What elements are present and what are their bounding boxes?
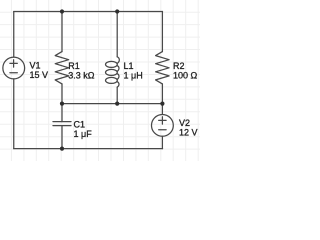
label R2 xyxy=(173,61,198,81)
inductor L1 xyxy=(106,12,120,104)
junction node bottom C1 xyxy=(60,147,64,151)
wire left upper (V1 top lead) xyxy=(13,12,15,58)
svg-text:100 Ω: 100 Ω xyxy=(173,71,198,81)
resistor R2 xyxy=(156,12,170,104)
capacitor C1 xyxy=(53,104,71,149)
junction node top L1 xyxy=(115,9,119,13)
junction node middle R2/V2 xyxy=(160,102,164,106)
svg-text:15 V: 15 V xyxy=(30,70,49,80)
svg-text:V1: V1 xyxy=(30,61,41,71)
junction node middle L1 xyxy=(115,102,119,106)
svg-text:L1: L1 xyxy=(124,61,134,71)
voltage source V2 xyxy=(152,104,174,149)
wire bottom xyxy=(14,148,163,150)
wire left lower (V1 bottom lead) xyxy=(13,79,15,149)
label V1 xyxy=(30,61,49,81)
label C1 xyxy=(74,120,93,140)
voltage source V1 xyxy=(3,57,25,79)
junction node top R1 xyxy=(60,9,64,13)
svg-text:1 μH: 1 μH xyxy=(124,71,143,81)
label L1 xyxy=(124,61,143,81)
label R1 xyxy=(68,61,95,81)
junction node middle R1/C1 xyxy=(60,102,64,106)
label V2 xyxy=(179,118,198,138)
svg-text:1 μF: 1 μF xyxy=(74,129,93,139)
svg-text:V2: V2 xyxy=(179,118,190,128)
resistor R1 xyxy=(55,12,68,104)
wire top xyxy=(14,11,163,13)
svg-text:3.3 kΩ: 3.3 kΩ xyxy=(68,71,95,81)
svg-text:R1: R1 xyxy=(68,61,80,71)
svg-text:R2: R2 xyxy=(173,61,185,71)
wire middle xyxy=(62,103,163,105)
svg-text:12 V: 12 V xyxy=(179,128,198,138)
svg-text:C1: C1 xyxy=(74,120,86,130)
